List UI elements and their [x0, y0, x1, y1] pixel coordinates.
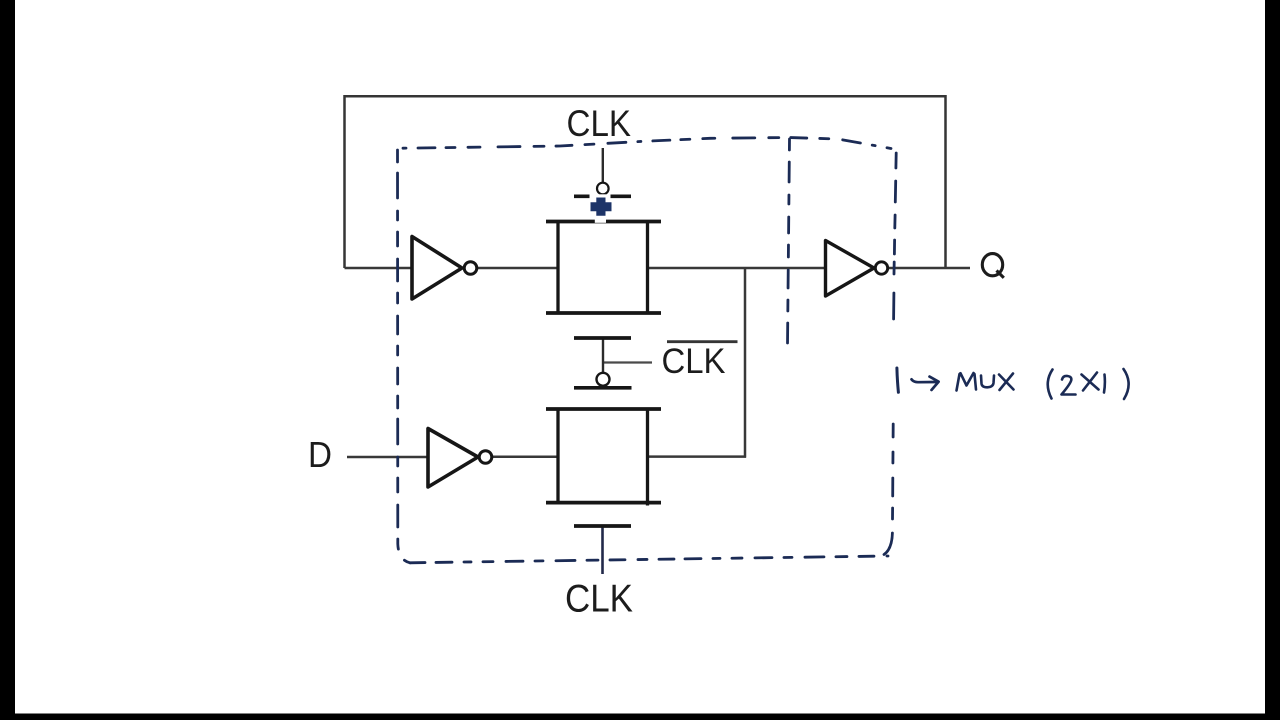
svg-text:D: D: [308, 434, 332, 475]
TG1 gate bubble: [597, 183, 609, 195]
mid gate plate lower (TG2 top gate): [574, 386, 632, 390]
wire node join vertical TG outputs: [744, 268, 747, 458]
svg-text:CLK: CLK: [662, 341, 726, 381]
paren ): [1124, 369, 1129, 399]
wire feedback loop Q to left inverter: [345, 96, 946, 268]
wire TG2 output to join: [648, 455, 747, 458]
inverter U2 (right, output): [826, 241, 875, 297]
overline of CLK-bar: [667, 340, 738, 343]
cursor plus white halo: [587, 194, 616, 222]
wire CLK bottom stem: [601, 526, 604, 574]
wire CLK top stem: [602, 148, 604, 183]
arrow head: [930, 377, 939, 390]
label Q: [982, 254, 1004, 278]
dashed MUX outline box: [398, 138, 897, 563]
letter M: [957, 373, 977, 391]
dashed box right edge: [884, 153, 896, 555]
annotation arrow to MUX: [897, 368, 939, 392]
svg-text:CLK: CLK: [567, 103, 632, 144]
transmission gate TG2 box: [546, 408, 661, 506]
digit 1: [1103, 375, 1107, 393]
transmission gate TG1 box: [546, 220, 661, 315]
bottom video bar: [0, 714, 1280, 720]
digit 2: [1062, 376, 1076, 395]
wire mid gate stem: [602, 338, 604, 373]
wire right inverter output to Q: [889, 267, 971, 270]
dashed box bottom edge: [410, 556, 888, 563]
svg-text:CLK: CLK: [565, 577, 633, 620]
bubble of inverter U2: [875, 262, 887, 274]
bubble of inverter U3: [479, 451, 492, 464]
paren (: [1048, 370, 1053, 399]
mid gate plate upper (TG1 bottom gate): [574, 336, 631, 340]
letter X small: [1082, 373, 1099, 391]
letter X: [999, 374, 1014, 391]
TG1 top gate plate: [574, 194, 631, 198]
annotation tick: [897, 368, 899, 392]
handwritten MUX (2X1): [957, 369, 1129, 399]
dashed box top edge: [403, 138, 891, 149]
inverter U1 (left, feedback): [412, 237, 462, 300]
right video bar: [1265, 0, 1280, 720]
letter U: [981, 376, 994, 388]
mid gate bubble: [597, 373, 610, 386]
wire left inverter output to TG1: [478, 267, 558, 270]
wire D input: [347, 456, 428, 459]
inverter U3 (D input): [428, 429, 478, 488]
TG2 bottom gate plate: [574, 524, 631, 528]
cursor plus mark: [591, 198, 612, 216]
bubble of inverter U1: [464, 262, 477, 275]
wire left inverter input: [345, 267, 413, 270]
wire CLKbar branch stub: [603, 361, 652, 363]
dashed inner edge (right inverter enclosure): [788, 139, 790, 345]
wire TG1 output to right inverter: [648, 267, 827, 270]
arrow shaft: [912, 379, 936, 382]
left video bar: [0, 0, 15, 720]
wire bottom inverter output to TG2: [492, 456, 558, 459]
dashed box left edge: [398, 150, 411, 563]
